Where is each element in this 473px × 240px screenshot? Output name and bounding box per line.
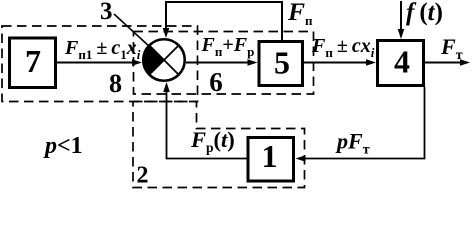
svg-text:5: 5 [274, 44, 290, 80]
summing junction circle [143, 39, 185, 81]
dashed subsystem box 8 [2, 26, 198, 102]
block 1 [248, 138, 294, 182]
svg-text:p<1: p<1 [43, 133, 83, 159]
svg-text:2: 2 [137, 163, 149, 189]
svg-text:1: 1 [262, 138, 278, 174]
feedback wire box1 to circle bottom [163, 82, 246, 159]
pointer line for label 3 [114, 14, 151, 48]
wire box5 to box4 [304, 59, 376, 66]
svg-text:4: 4 [394, 44, 410, 80]
block 4 [378, 41, 424, 86]
svg-text:8: 8 [109, 69, 122, 98]
svg-text:Fп1 ± c1xi: Fп1 ± c1xi [64, 37, 141, 62]
svg-text:Fп ± cxi: Fп ± cxi [311, 35, 375, 60]
feedback wire box4 to box1 [296, 87, 425, 162]
svg-text:3: 3 [100, 0, 113, 25]
svg-text:f (t): f (t) [406, 0, 443, 26]
top feedback wire box5 to circle [163, 2, 282, 40]
dashed subsystem box 2 (L-shape) [133, 102, 305, 188]
block 7 [10, 38, 56, 88]
svg-text:6: 6 [209, 67, 223, 97]
f(t) input wire [398, 1, 405, 39]
dashed subsystem box 6 [134, 32, 314, 95]
svg-text:Fп+Fр: Fп+Fр [201, 34, 255, 59]
wire box7 to circle [57, 59, 142, 66]
block 5 [259, 42, 303, 86]
svg-text:7: 7 [25, 43, 41, 79]
wire circle to box5 [186, 59, 258, 66]
output wire box4 right [425, 59, 470, 66]
